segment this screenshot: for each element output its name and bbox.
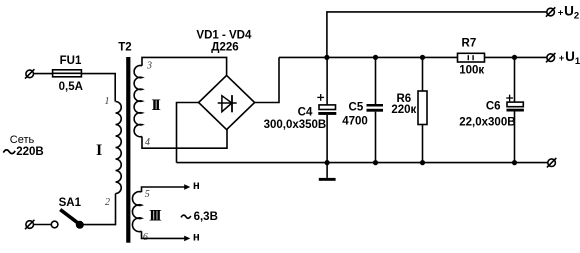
terminal input line (bottom left) bbox=[25, 220, 34, 229]
wire bridge - to common rail bbox=[177, 103, 199, 163]
wire pin 3 to bridge top bbox=[142, 57, 227, 75]
value ~220В bbox=[3, 150, 15, 154]
svg-text:SA1: SA1 bbox=[59, 197, 82, 209]
svg-text:6: 6 bbox=[143, 232, 148, 243]
fuse FU1 bbox=[53, 70, 82, 77]
svg-text:C5: C5 bbox=[349, 102, 364, 114]
terminal +U1 bbox=[546, 53, 555, 62]
svg-text:300,0x350В: 300,0x350В bbox=[264, 119, 327, 131]
switch SA1 bbox=[51, 210, 84, 229]
wire bridge + to DC rail bbox=[255, 57, 279, 102]
svg-text:Сеть: Сеть bbox=[10, 134, 35, 146]
terminal common bbox=[547, 158, 556, 167]
junction C6 bottom bbox=[512, 160, 517, 165]
terminal +U2 bbox=[546, 7, 555, 16]
svg-text:4: 4 bbox=[145, 137, 150, 148]
junction R6 bottom bbox=[420, 160, 425, 165]
svg-text:VD1 - VD4: VD1 - VD4 bbox=[196, 29, 252, 41]
svg-text:22,0x300В: 22,0x300В bbox=[459, 117, 515, 129]
wire switch to T2 pin 2 bbox=[83, 194, 115, 225]
capacitor C4 bbox=[318, 57, 336, 162]
wire pin 6 with arrow bbox=[142, 231, 191, 241]
wire terminal to switch bbox=[34, 224, 52, 226]
capacitor C6 bbox=[507, 57, 524, 162]
winding I (primary) bbox=[116, 102, 122, 194]
svg-text:6,3В: 6,3В bbox=[194, 211, 218, 223]
junction C4 bottom bbox=[325, 160, 330, 165]
resistor R7 bbox=[458, 53, 485, 62]
svg-text:T2: T2 bbox=[118, 42, 131, 54]
svg-text:C4: C4 bbox=[298, 106, 313, 118]
winding III bbox=[132, 192, 141, 232]
winding II bbox=[134, 65, 142, 136]
svg-text:0,5A: 0,5A bbox=[59, 81, 83, 93]
junction node R6 top bbox=[420, 55, 425, 60]
+U1 rail bbox=[485, 56, 547, 58]
capacitor C5 bbox=[367, 57, 384, 162]
wire pin 5 with arrow bbox=[142, 184, 191, 192]
svg-text:100к: 100к bbox=[459, 64, 484, 76]
svg-text:2: 2 bbox=[105, 197, 110, 208]
svg-text:3: 3 bbox=[146, 61, 152, 72]
svg-text:220В: 220В bbox=[16, 146, 44, 158]
svg-text:н: н bbox=[193, 180, 200, 192]
junction C6 top bbox=[512, 55, 517, 60]
ground bbox=[319, 163, 336, 181]
terminal input line (top left) bbox=[25, 69, 34, 78]
svg-text:н: н bbox=[193, 232, 200, 244]
svg-text:220к: 220к bbox=[391, 104, 416, 116]
svg-text:C6: C6 bbox=[486, 101, 501, 113]
svg-text:5: 5 bbox=[145, 189, 150, 200]
svg-text:Д226: Д226 bbox=[211, 42, 238, 54]
DC+ rail bbox=[279, 56, 458, 58]
wire pin 4 to bridge bottom bbox=[142, 130, 227, 149]
wire +U2 branch bbox=[327, 12, 547, 58]
svg-text:4700: 4700 bbox=[342, 115, 368, 127]
resistor R6 bbox=[418, 57, 427, 162]
wire fuse to T2 pin 1 bbox=[81, 74, 115, 102]
junction node C4/+U2 bbox=[324, 55, 329, 60]
polarity + of C6 bbox=[506, 95, 513, 102]
transformer core bbox=[126, 57, 130, 243]
bridge diode symbol bbox=[218, 95, 237, 112]
wire terminal to fuse bbox=[34, 73, 53, 75]
svg-text:FU1: FU1 bbox=[60, 55, 82, 67]
polarity + of C4 bbox=[317, 94, 324, 101]
bridge rectifier VD1-VD4 diamond bbox=[199, 75, 255, 129]
common rail bbox=[177, 162, 548, 164]
svg-text:R7: R7 bbox=[462, 37, 477, 49]
junction C5 bottom bbox=[373, 160, 378, 165]
junction node C5 top bbox=[373, 55, 378, 60]
svg-text:1: 1 bbox=[105, 96, 110, 107]
value ~6,3В bbox=[181, 215, 191, 218]
